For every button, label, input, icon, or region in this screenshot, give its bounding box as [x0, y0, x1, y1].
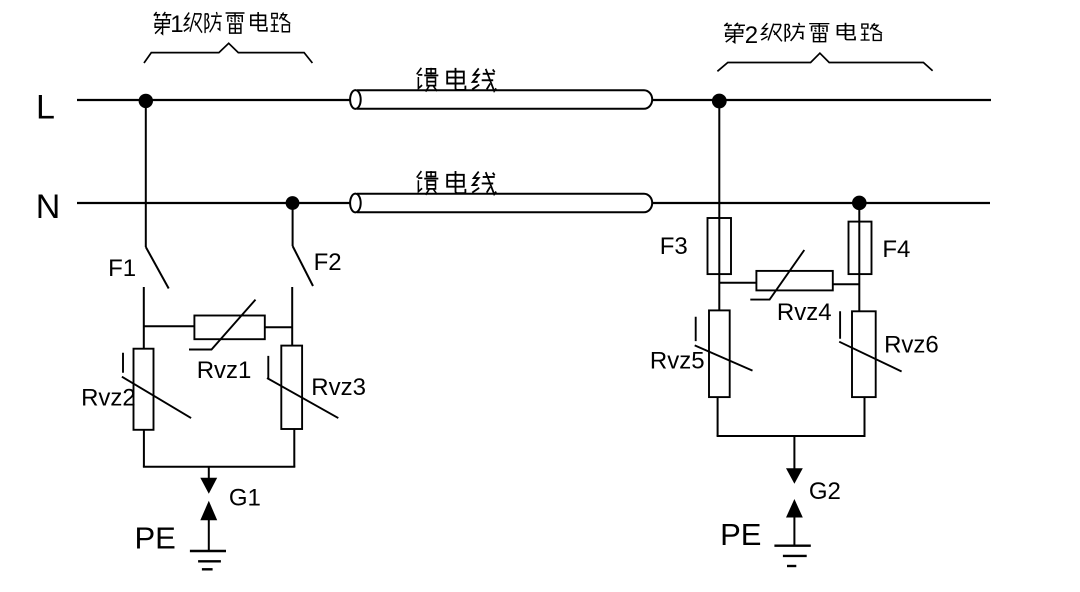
wire: N bus left segment: [77, 202, 351, 204]
wire: from N dot down to F2: [292, 203, 294, 246]
svg-text:N: N: [36, 188, 61, 226]
brace: stage 2: [717, 53, 932, 71]
node: junction dot on L (stage 1): [139, 94, 153, 108]
wire: Rvz5 bottom lead: [717, 397, 719, 436]
switch F1 blade: [146, 247, 169, 289]
varistor Rvz2 diagonal: [122, 353, 191, 418]
svg-text:G1: G1: [229, 485, 261, 512]
varistor Rvz1 body: [194, 316, 264, 340]
switch F2 blade: [293, 246, 313, 286]
svg-text:L: L: [36, 88, 55, 126]
node: junction dot on L (stage 2): [712, 94, 727, 109]
svg-text:F4: F4: [882, 236, 910, 263]
arrester G1 upper arrow: [200, 478, 217, 494]
svg-text:PE: PE: [135, 520, 176, 555]
wire: Rvz2 bottom lead: [143, 430, 145, 467]
node: junction dot on N (stage 2): [852, 196, 867, 211]
fuse F3 body: [708, 218, 732, 274]
varistor Rvz3 diagonal: [267, 356, 338, 418]
feeder cable (coax) on N line: [350, 194, 652, 213]
feeder cable (coax) on L line: [350, 90, 652, 109]
wire: Rvz1 right lead: [265, 326, 292, 328]
varistor Rvz6 body: [852, 311, 876, 397]
varistor Rvz4 diagonal: [750, 250, 804, 300]
wire: N dot down through F4 to Rvz6: [858, 203, 860, 311]
svg-text:Rvz4: Rvz4: [777, 299, 832, 326]
arrester G1 lower arrow: [200, 501, 217, 520]
svg-text:Rvz3: Rvz3: [311, 374, 366, 401]
ground symbol (stage 1): [190, 551, 226, 569]
varistor Rvz3 body: [281, 346, 302, 429]
svg-text:G2: G2: [809, 478, 841, 505]
svg-text:Rvz1: Rvz1: [197, 357, 252, 384]
wire: from L dot down to F1: [145, 100, 147, 247]
wire: left lead to Rvz4: [719, 282, 756, 284]
varistor Rvz4 body: [756, 271, 832, 291]
varistor Rvz2 body: [134, 349, 154, 430]
arrester G2 upper arrow: [786, 468, 803, 484]
varistor Rvz5 body: [709, 310, 730, 397]
wire: L dot down through F3 to Rvz5: [718, 100, 720, 310]
wire: stage 2 bottom rail: [717, 435, 866, 437]
varistor Rvz1 diagonal: [189, 300, 256, 350]
wire: G1 to ground: [208, 519, 210, 551]
wire: F1 lower terminal: [143, 287, 145, 349]
wire: Rvz6 bottom lead: [864, 397, 866, 436]
wire: L bus right segment: [652, 99, 991, 101]
svg-text:PE: PE: [720, 517, 761, 552]
wire: left lead to Rvz1: [144, 325, 195, 327]
svg-text:Rvz5: Rvz5: [650, 347, 705, 374]
label 第2级防雷电路 (stage 2 title): [724, 22, 882, 49]
label 馈电线 (L feeder): [417, 68, 496, 92]
svg-text:Rvz2: Rvz2: [81, 385, 136, 412]
wire: Rvz3 bottom lead: [293, 429, 295, 467]
ground symbol (stage 2): [774, 546, 810, 566]
svg-text:F2: F2: [314, 249, 342, 276]
varistor Rvz6 diagonal: [839, 311, 901, 371]
arrester G2 lower arrow: [786, 499, 803, 518]
arrester G2 upper stub: [793, 436, 795, 469]
fuse F4 body: [849, 222, 872, 275]
svg-text:F3: F3: [660, 233, 688, 260]
svg-text:Rvz6: Rvz6: [884, 332, 939, 359]
label 第1级防雷电路 (stage 1 title): [154, 11, 290, 38]
svg-text:F1: F1: [108, 255, 136, 282]
arrester G1 upper stub: [208, 467, 210, 479]
wire: L bus left segment: [77, 99, 351, 101]
wire: stage 1 bottom rail: [143, 466, 295, 468]
node: junction dot on N (F2): [286, 196, 300, 210]
label 馈电线 (N feeder): [417, 171, 496, 195]
varistor Rvz5 diagonal: [695, 317, 753, 371]
wire: Rvz4 right lead: [833, 283, 860, 285]
wire: G2 to ground: [793, 516, 795, 546]
svg-text:2: 2: [745, 22, 758, 49]
svg-text:1: 1: [170, 11, 183, 38]
wire: F2 lower terminal: [291, 287, 293, 346]
brace: stage 1: [144, 43, 312, 63]
wire: N bus right segment: [652, 202, 990, 204]
